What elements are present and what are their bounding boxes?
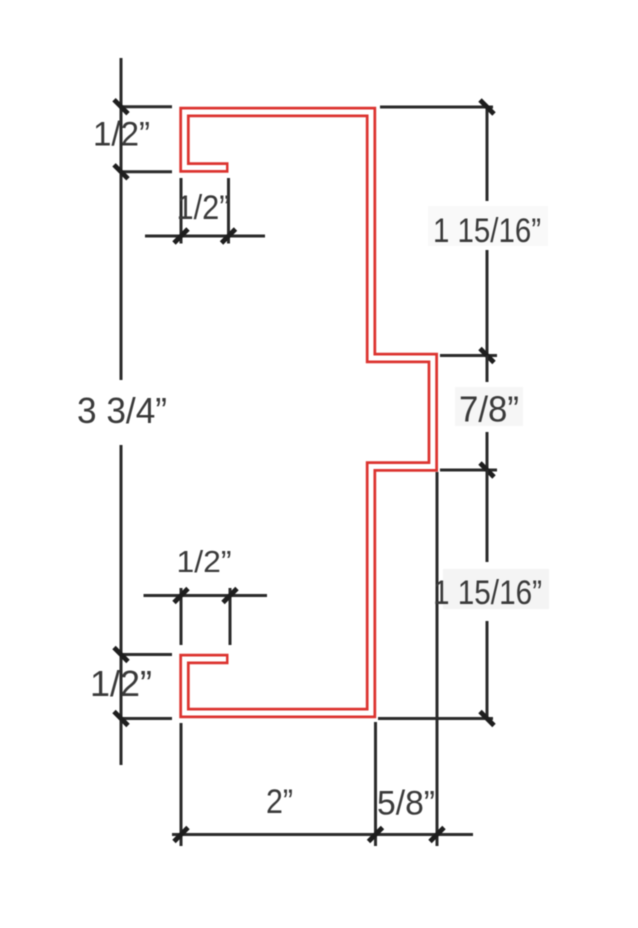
notch bottom step line y=470 [440, 469, 497, 472]
red profile outline (sheet cross-section) [185, 112, 433, 713]
bottom 1/2 dim line y=595.5 [144, 594, 268, 597]
top 1/2 dim: extension line x=181 [180, 178, 183, 244]
svg-text:1/2”: 1/2” [90, 663, 152, 704]
svg-text:1 15/16”: 1 15/16” [433, 574, 542, 612]
tick at (181,834.5) [174, 828, 188, 842]
tick at (487,355.5) [480, 349, 494, 363]
svg-text:1/2”: 1/2” [93, 116, 150, 154]
text highlight box 1 15/16 top-right [428, 206, 548, 246]
bottom-right dim 1 15/16 vertical segments x=487 [486, 470, 489, 719]
svg-text:1 15/16”: 1 15/16” [433, 212, 541, 250]
tick at (121,718.5) [114, 712, 128, 726]
tick at (375.5,834.5) [369, 828, 383, 842]
text highlight box 1 15/16 bottom-right [443, 569, 549, 609]
text highlight box 7/8 [455, 387, 523, 426]
tick at (181,595.5) [174, 589, 188, 603]
extension line x=437 (notch edge down to bottom dim) [436, 472, 439, 846]
right dim 1 15/16 top: horizontal line y=107 [380, 106, 493, 109]
svg-text:1/2”: 1/2” [177, 189, 230, 227]
tick at (181,236) [174, 229, 188, 243]
extension line x=181 bottom [180, 723, 183, 846]
tick at (487,470) [480, 463, 494, 477]
notch top step line y=355.5 [440, 354, 497, 357]
left extension line y=718.5 [119, 717, 172, 720]
extension line x=375.5 [374, 722, 377, 846]
7/8 dim vertical segments x=487 [486, 356, 489, 471]
left extension line y=107 [119, 105, 172, 108]
bottom dim line y=834.5 [172, 833, 473, 836]
svg-text:5/8”: 5/8” [377, 785, 435, 823]
left vertical dimension line x=121 (overall 3 3/4) [120, 58, 123, 765]
svg-text:1/2”: 1/2” [177, 544, 232, 579]
right dim vertical line x=487 upper segments [486, 107, 489, 356]
tick at (487,107) [480, 100, 494, 114]
svg-text:3 3/4”: 3 3/4” [77, 390, 167, 431]
tick at (487,718.5) [480, 712, 494, 726]
tick at (230,595.5) [223, 589, 237, 603]
tick at (437,834.5) [430, 828, 444, 842]
svg-text:2”: 2” [266, 783, 293, 821]
left extension line y=654.5 [119, 653, 172, 656]
bottom 1/2 dim: extension line x=230 [229, 588, 232, 645]
bottom 1/2 dim: extension line x=181 [180, 588, 183, 645]
top 1/2 dim: extension line x=228.5 [227, 178, 230, 244]
tick at (121,171.8) [114, 165, 128, 179]
bottom-right horizontal line y=718.5 [378, 717, 493, 720]
red profile inner white (double-line effect) [185, 112, 433, 713]
tick at (121,654.5) [114, 648, 128, 662]
svg-text:7/8”: 7/8” [459, 389, 519, 430]
left extension line y=172 [119, 170, 172, 173]
top 1/2 dim line y=236 [145, 235, 265, 238]
tick at (121,106.7) [114, 100, 128, 114]
tick at (228.5,236) [222, 229, 236, 243]
